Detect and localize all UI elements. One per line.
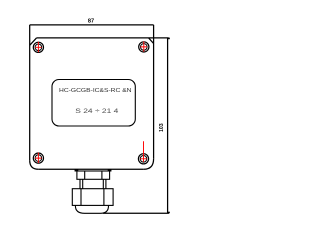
arrow nubs on vertical dimension xyxy=(168,38,170,40)
cable gland lower nut xyxy=(72,189,113,206)
left extension / box left edge xyxy=(29,25,31,160)
flange end blocks xyxy=(75,169,78,171)
svg-text:HC-GCGB-IC&S-RC &N: HC-GCGB-IC&S-RC &N xyxy=(59,88,132,94)
box top-left chamfer xyxy=(30,38,37,45)
bottom witness line xyxy=(103,212,169,214)
label plate rounded rect xyxy=(52,80,135,127)
right extension / box right edge xyxy=(153,25,155,159)
svg-text:S 24 ÷ 21 4: S 24 ÷ 21 4 xyxy=(75,108,118,115)
cable gland upper nut xyxy=(77,171,110,179)
cable gland flange xyxy=(75,169,111,171)
screw top-left xyxy=(33,42,43,53)
dimension line 103 (right, vertical) xyxy=(167,38,169,213)
svg-text:87: 87 xyxy=(88,19,94,25)
svg-text:103: 103 xyxy=(159,123,165,132)
dimension line 87 (top) xyxy=(30,24,154,26)
box bottom edge xyxy=(38,168,144,170)
screw bottom-right xyxy=(138,141,148,164)
cable gland neck xyxy=(80,179,106,188)
box top-right chamfer xyxy=(149,38,154,44)
screw bottom-left xyxy=(33,153,43,164)
box top edge + top witness line xyxy=(37,37,169,39)
box bottom-right corner arc xyxy=(144,159,154,170)
cable gland bottom dome xyxy=(75,205,108,213)
box bottom-left corner arc xyxy=(30,160,39,169)
screw top-right xyxy=(139,41,149,52)
